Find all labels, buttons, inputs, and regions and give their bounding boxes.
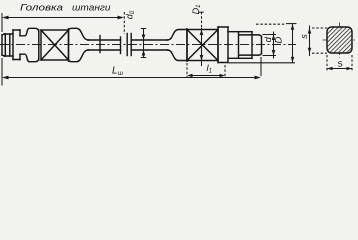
shaft body right	[131, 40, 167, 50]
square cross-section view	[327, 27, 352, 53]
dimension head length	[2, 12, 124, 34]
dimension s bottom	[327, 55, 352, 72]
dimension d	[263, 32, 277, 59]
svg-text:штанги: штанги	[72, 3, 111, 14]
left bell collar	[69, 28, 89, 61]
break lines	[121, 34, 132, 56]
centerline	[0, 44, 296, 46]
shank end	[239, 35, 262, 55]
dimension D	[229, 24, 297, 63]
right bell collar	[168, 29, 188, 61]
svg-text:s: s	[299, 34, 309, 39]
svg-text:d: d	[263, 36, 274, 42]
square drive section right (X-box)	[187, 30, 218, 61]
dimension l1	[187, 63, 225, 78]
dimension d0	[141, 29, 146, 58]
shank cylinder	[228, 32, 252, 59]
svg-text:D: D	[274, 36, 285, 43]
square drive section left (X-box)	[41, 30, 69, 60]
svg-text:Головка: Головка	[20, 3, 63, 14]
dimension L_sh	[2, 57, 261, 86]
right collar ring	[218, 27, 228, 63]
square view centerlines	[323, 23, 357, 58]
dimension D1	[198, 12, 203, 66]
shaft body left	[88, 36, 121, 53]
rod head outline	[2, 28, 39, 61]
dimension s (side of square, view)	[310, 26, 328, 57]
